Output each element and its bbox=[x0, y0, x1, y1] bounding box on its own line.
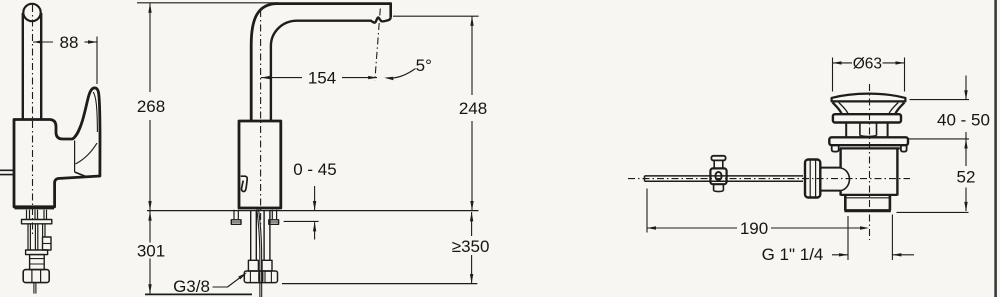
svg-text:248: 248 bbox=[459, 99, 487, 118]
svg-text:G3/8: G3/8 bbox=[173, 277, 210, 296]
svg-text:88: 88 bbox=[60, 33, 79, 52]
svg-text:5°: 5° bbox=[416, 56, 432, 75]
svg-text:≥350: ≥350 bbox=[452, 237, 490, 256]
svg-text:G 1" 1/4: G 1" 1/4 bbox=[762, 245, 824, 264]
svg-text:154: 154 bbox=[308, 69, 336, 88]
svg-text:268: 268 bbox=[137, 97, 165, 116]
svg-text:301: 301 bbox=[137, 242, 165, 261]
svg-text:52: 52 bbox=[957, 168, 976, 187]
svg-text:190: 190 bbox=[740, 219, 768, 238]
svg-text:40 - 50: 40 - 50 bbox=[937, 111, 990, 130]
svg-text:0 - 45: 0 - 45 bbox=[293, 160, 336, 179]
svg-text:Ø63: Ø63 bbox=[853, 56, 882, 73]
